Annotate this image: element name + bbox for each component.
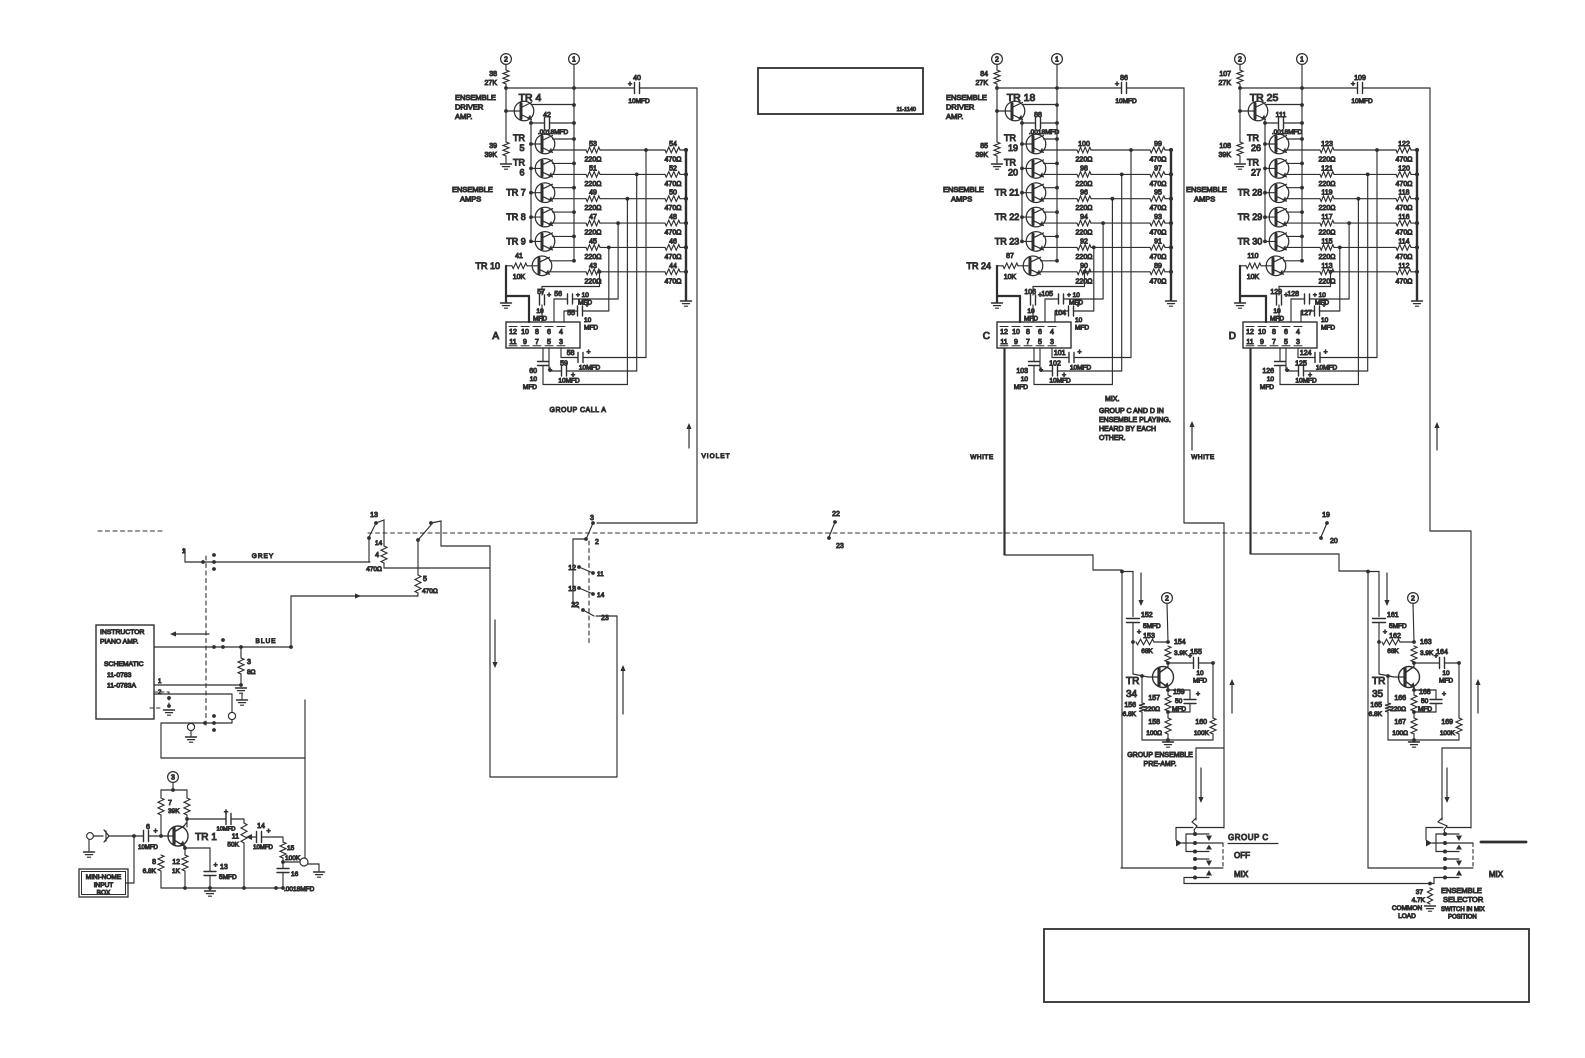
svg-text:105: 105 xyxy=(1041,291,1053,298)
svg-text:11: 11 xyxy=(1246,339,1253,346)
svg-text:109: 109 xyxy=(1354,75,1366,82)
svg-text:TR 22: TR 22 xyxy=(995,212,1020,222)
svg-text:106: 106 xyxy=(1024,289,1036,296)
svg-text:5: 5 xyxy=(547,339,551,346)
svg-text:2: 2 xyxy=(995,57,999,64)
svg-text:470Ω: 470Ω xyxy=(1396,157,1413,164)
svg-text:TR 7: TR 7 xyxy=(506,188,526,198)
svg-text:14: 14 xyxy=(597,592,605,599)
svg-text:89: 89 xyxy=(1154,263,1162,270)
svg-text:51: 51 xyxy=(589,165,597,172)
svg-text:INSTRUCTOR: INSTRUCTOR xyxy=(100,629,145,636)
svg-text:AMPS: AMPS xyxy=(951,195,972,204)
svg-text:220Ω: 220Ω xyxy=(1390,706,1406,713)
svg-text:26: 26 xyxy=(1251,143,1261,153)
svg-text:68K: 68K xyxy=(1141,648,1153,655)
svg-text:11-1140: 11-1140 xyxy=(897,107,916,113)
svg-text:11: 11 xyxy=(232,834,239,841)
svg-text:ENSEMBLE: ENSEMBLE xyxy=(946,93,987,102)
svg-text:HEARD BY EACH: HEARD BY EACH xyxy=(1099,426,1156,433)
svg-text:10: 10 xyxy=(1273,308,1281,315)
svg-text:TR: TR xyxy=(513,157,525,167)
svg-text:AMPS: AMPS xyxy=(1194,195,1215,204)
svg-text:MFD: MFD xyxy=(523,384,537,391)
svg-text:470Ω: 470Ω xyxy=(665,181,682,188)
svg-text:6.8K: 6.8K xyxy=(1369,711,1383,718)
svg-text:10: 10 xyxy=(1075,317,1083,324)
svg-text:86: 86 xyxy=(1120,75,1128,82)
svg-text:3.9K: 3.9K xyxy=(1420,650,1434,657)
svg-text:161: 161 xyxy=(1387,612,1399,619)
svg-text:10: 10 xyxy=(1258,329,1266,336)
svg-text:GROUP ENSEMBLE: GROUP ENSEMBLE xyxy=(1127,752,1193,759)
svg-text:TR 24: TR 24 xyxy=(966,261,991,271)
svg-text:D: D xyxy=(1229,331,1236,342)
svg-text:BLUE: BLUE xyxy=(256,638,277,645)
svg-text:5: 5 xyxy=(423,576,427,583)
svg-text:TR 28: TR 28 xyxy=(1238,188,1263,198)
svg-text:470Ω: 470Ω xyxy=(422,588,438,595)
svg-text:4: 4 xyxy=(375,552,379,559)
svg-text:AMP.: AMP. xyxy=(455,112,472,121)
svg-text:117: 117 xyxy=(1321,214,1332,221)
svg-text:TR: TR xyxy=(513,133,525,143)
svg-text:4: 4 xyxy=(559,329,563,336)
svg-text:220Ω: 220Ω xyxy=(1319,230,1336,237)
svg-text:470Ω: 470Ω xyxy=(1150,181,1167,188)
svg-text:POSITION: POSITION xyxy=(1448,915,1477,921)
svg-text:220Ω: 220Ω xyxy=(585,157,602,164)
svg-text:+: + xyxy=(214,862,218,869)
svg-text:2: 2 xyxy=(504,57,508,64)
svg-text:470Ω: 470Ω xyxy=(665,230,682,237)
svg-text:10: 10 xyxy=(584,317,592,324)
svg-text:WHITE: WHITE xyxy=(1191,454,1215,461)
svg-text:10: 10 xyxy=(530,376,538,383)
svg-text:97: 97 xyxy=(1154,165,1162,172)
svg-text:470Ω: 470Ω xyxy=(1150,254,1167,261)
svg-text:39: 39 xyxy=(489,143,497,150)
svg-text:3: 3 xyxy=(559,339,563,346)
svg-text:+ 10: + 10 xyxy=(1313,292,1326,299)
svg-text:470Ω: 470Ω xyxy=(1150,205,1167,212)
svg-text:128: 128 xyxy=(1287,291,1299,298)
svg-text:+: + xyxy=(1115,81,1119,88)
svg-text:VIOLET: VIOLET xyxy=(701,453,730,460)
svg-text:+: + xyxy=(1351,81,1355,88)
svg-text:121: 121 xyxy=(1321,165,1333,172)
svg-text:5MFD: 5MFD xyxy=(1143,623,1161,630)
svg-text:122: 122 xyxy=(1398,141,1410,148)
svg-text:42: 42 xyxy=(543,112,551,119)
svg-text:MFD: MFD xyxy=(1172,706,1186,713)
svg-text:39K: 39K xyxy=(168,808,180,815)
svg-text:GROUP C: GROUP C xyxy=(1228,833,1269,842)
svg-text:22: 22 xyxy=(832,511,840,518)
svg-text:11-0783A: 11-0783A xyxy=(107,683,136,690)
svg-text:+: + xyxy=(587,349,591,356)
svg-text:C: C xyxy=(983,331,990,342)
svg-text:19: 19 xyxy=(1008,143,1018,153)
svg-text:TR 18: TR 18 xyxy=(1007,92,1036,104)
svg-text:3: 3 xyxy=(171,775,175,782)
svg-text:27K: 27K xyxy=(485,80,498,87)
svg-text:DRIVER: DRIVER xyxy=(946,103,975,112)
svg-text:GROUP C AND D IN: GROUP C AND D IN xyxy=(1099,408,1164,415)
svg-text:MFD: MFD xyxy=(1075,325,1089,332)
svg-text:+: + xyxy=(224,809,228,816)
svg-text:WHITE: WHITE xyxy=(970,454,994,461)
svg-text:98: 98 xyxy=(1080,165,1088,172)
svg-text:100Ω: 100Ω xyxy=(1146,730,1162,737)
svg-text:37: 37 xyxy=(1416,889,1424,896)
svg-text:1: 1 xyxy=(1300,57,1304,64)
svg-text:MIX: MIX xyxy=(1489,870,1504,879)
svg-text:10: 10 xyxy=(1021,376,1029,383)
svg-text:12: 12 xyxy=(172,859,180,866)
svg-text:156: 156 xyxy=(1124,702,1136,709)
svg-text:2: 2 xyxy=(1411,596,1415,603)
svg-text:470Ω: 470Ω xyxy=(1396,205,1413,212)
svg-text:123: 123 xyxy=(1321,141,1333,148)
svg-text:470Ω: 470Ω xyxy=(665,205,682,212)
svg-text:SELECTOR: SELECTOR xyxy=(1443,895,1484,904)
svg-text:100K: 100K xyxy=(1194,730,1210,737)
svg-text:10: 10 xyxy=(1196,670,1204,677)
svg-text:12: 12 xyxy=(568,565,576,572)
svg-text:48: 48 xyxy=(669,214,677,221)
svg-text:162: 162 xyxy=(1389,633,1401,640)
svg-text:113: 113 xyxy=(1321,263,1332,270)
svg-text:+: + xyxy=(547,292,551,299)
svg-text:470Ω: 470Ω xyxy=(665,157,682,164)
svg-text:SWITCH IN MIX: SWITCH IN MIX xyxy=(1441,907,1485,913)
svg-text:101: 101 xyxy=(1054,350,1066,357)
svg-text:92: 92 xyxy=(1080,238,1088,245)
svg-text:166: 166 xyxy=(1394,695,1406,702)
svg-text:158: 158 xyxy=(1148,719,1160,726)
svg-text:58: 58 xyxy=(567,350,575,357)
svg-text:INPUT: INPUT xyxy=(94,882,114,889)
svg-text:53: 53 xyxy=(589,141,597,148)
svg-text:SCHEMATIC: SCHEMATIC xyxy=(104,661,144,668)
svg-text:220Ω: 220Ω xyxy=(1076,181,1093,188)
svg-text:6: 6 xyxy=(1284,329,1288,336)
svg-text:220Ω: 220Ω xyxy=(1144,706,1160,713)
svg-text:39K: 39K xyxy=(485,152,498,159)
svg-text:4.7K: 4.7K xyxy=(1412,897,1426,904)
svg-text:470Ω: 470Ω xyxy=(665,254,682,261)
svg-text:102: 102 xyxy=(1049,361,1061,368)
svg-text:114: 114 xyxy=(1398,238,1409,245)
svg-text:91: 91 xyxy=(1154,238,1162,245)
svg-text:11: 11 xyxy=(1000,339,1007,346)
svg-text:120: 120 xyxy=(1398,165,1410,172)
svg-text:10MFD: 10MFD xyxy=(1115,98,1137,105)
svg-text:12: 12 xyxy=(1000,329,1008,336)
svg-text:470Ω: 470Ω xyxy=(366,566,382,573)
svg-text:163: 163 xyxy=(1420,639,1432,646)
svg-text:8: 8 xyxy=(152,859,156,866)
svg-text:115: 115 xyxy=(1321,238,1332,245)
svg-text:57: 57 xyxy=(537,289,545,296)
svg-text:5: 5 xyxy=(519,143,524,153)
svg-text:220Ω: 220Ω xyxy=(1319,205,1336,212)
svg-text:6: 6 xyxy=(519,167,524,177)
svg-text:TR 4: TR 4 xyxy=(519,92,542,104)
svg-text:5: 5 xyxy=(1038,339,1042,346)
svg-text:6: 6 xyxy=(146,824,150,831)
svg-text:27K: 27K xyxy=(1219,80,1232,87)
svg-text:MFD: MFD xyxy=(1439,678,1453,685)
svg-text:MIX.: MIX. xyxy=(1105,396,1119,403)
svg-text:470Ω: 470Ω xyxy=(1150,278,1167,285)
svg-text:+: + xyxy=(1039,367,1043,374)
svg-text:MIX: MIX xyxy=(1234,870,1249,879)
svg-text:7: 7 xyxy=(1026,339,1030,346)
svg-text:47: 47 xyxy=(589,214,597,221)
svg-text:2: 2 xyxy=(1238,57,1242,64)
svg-text:LOAD: LOAD xyxy=(1398,913,1416,920)
svg-text:PIANO AMP.: PIANO AMP. xyxy=(100,639,139,646)
svg-text:AMPS: AMPS xyxy=(460,195,481,204)
svg-text:TR 21: TR 21 xyxy=(995,188,1020,198)
svg-text:152: 152 xyxy=(1141,612,1153,619)
svg-text:TR 29: TR 29 xyxy=(1238,212,1263,222)
svg-text:470Ω: 470Ω xyxy=(1396,181,1413,188)
svg-text:10MFD: 10MFD xyxy=(1049,378,1071,385)
svg-text:10: 10 xyxy=(1321,317,1329,324)
svg-text:3: 3 xyxy=(1296,339,1300,346)
svg-text:15: 15 xyxy=(287,845,295,852)
svg-text:14: 14 xyxy=(375,540,383,547)
svg-text:220Ω: 220Ω xyxy=(585,205,602,212)
svg-text:+: + xyxy=(1324,349,1328,356)
svg-text:2: 2 xyxy=(1165,596,1169,603)
svg-text:MFD: MFD xyxy=(584,325,598,332)
svg-text:100K: 100K xyxy=(285,855,301,862)
svg-text:10: 10 xyxy=(521,329,529,336)
svg-text:10: 10 xyxy=(1267,376,1275,383)
svg-text:112: 112 xyxy=(1398,263,1409,270)
svg-text:85: 85 xyxy=(980,143,988,150)
svg-text:10MFD: 10MFD xyxy=(253,845,273,851)
svg-text:19: 19 xyxy=(1322,512,1330,519)
svg-text:470Ω: 470Ω xyxy=(1396,254,1413,261)
svg-text:52: 52 xyxy=(669,165,677,172)
svg-text:44: 44 xyxy=(669,263,677,270)
svg-text:6.8K: 6.8K xyxy=(1123,711,1137,718)
svg-text:10MFD: 10MFD xyxy=(628,98,650,105)
svg-text:10: 10 xyxy=(1012,329,1020,336)
svg-text:1K: 1K xyxy=(172,868,181,875)
svg-text:35: 35 xyxy=(1372,689,1384,700)
svg-text:7: 7 xyxy=(168,800,172,807)
svg-text:+: + xyxy=(154,828,158,835)
svg-text:103: 103 xyxy=(1016,368,1028,375)
svg-text:50: 50 xyxy=(669,190,677,197)
svg-text:PRE-AMP.: PRE-AMP. xyxy=(1144,761,1177,768)
svg-text:119: 119 xyxy=(1321,190,1332,197)
svg-text:7: 7 xyxy=(1272,339,1276,346)
svg-text:6: 6 xyxy=(1038,329,1042,336)
svg-text:14: 14 xyxy=(257,823,265,830)
svg-text:10: 10 xyxy=(1027,308,1035,315)
svg-text:TR: TR xyxy=(1372,676,1385,687)
svg-text:23: 23 xyxy=(836,543,844,550)
svg-text:TR 23: TR 23 xyxy=(995,236,1020,246)
svg-text:84: 84 xyxy=(980,71,988,78)
svg-text:10K: 10K xyxy=(513,274,526,281)
svg-text:10MFD: 10MFD xyxy=(1351,98,1373,105)
svg-text:TR: TR xyxy=(1004,157,1016,167)
svg-text:116: 116 xyxy=(1398,214,1409,221)
svg-text:5: 5 xyxy=(1284,339,1288,346)
svg-text:220Ω: 220Ω xyxy=(1076,157,1093,164)
svg-text:95: 95 xyxy=(1154,190,1162,197)
svg-text:+: + xyxy=(585,302,589,309)
svg-text:220Ω: 220Ω xyxy=(1076,254,1093,261)
svg-text:12: 12 xyxy=(509,329,517,336)
svg-text:+: + xyxy=(1285,367,1289,374)
svg-text:154: 154 xyxy=(1174,639,1186,646)
svg-text:+: + xyxy=(628,81,632,88)
svg-text:470Ω: 470Ω xyxy=(1150,230,1167,237)
svg-text:10MFD: 10MFD xyxy=(216,827,235,833)
svg-text:TR 8: TR 8 xyxy=(506,212,526,222)
svg-text:10K: 10K xyxy=(1247,274,1260,281)
svg-text:68K: 68K xyxy=(1387,648,1399,655)
svg-text:8: 8 xyxy=(535,329,539,336)
svg-text:ENSEMBLE: ENSEMBLE xyxy=(455,93,496,102)
svg-text:TR: TR xyxy=(1247,157,1259,167)
svg-text:100: 100 xyxy=(1078,141,1090,148)
svg-text:3: 3 xyxy=(1050,339,1054,346)
svg-text:54: 54 xyxy=(669,141,677,148)
svg-text:118: 118 xyxy=(1398,190,1409,197)
svg-text:3: 3 xyxy=(590,515,594,522)
svg-text:153: 153 xyxy=(1143,633,1155,640)
svg-text:3: 3 xyxy=(247,659,251,666)
svg-text:220Ω: 220Ω xyxy=(1076,230,1093,237)
svg-text:40: 40 xyxy=(633,75,641,82)
svg-text:+: + xyxy=(1078,349,1082,356)
svg-text:MFD: MFD xyxy=(1321,325,1335,332)
svg-text:56: 56 xyxy=(554,291,562,298)
svg-text:11: 11 xyxy=(597,571,604,578)
svg-text:TR 9: TR 9 xyxy=(506,236,526,246)
svg-text:124: 124 xyxy=(1300,350,1312,357)
svg-text:220Ω: 220Ω xyxy=(585,278,602,285)
svg-text:93: 93 xyxy=(1154,214,1162,221)
svg-text:1: 1 xyxy=(572,57,576,64)
svg-text:220Ω: 220Ω xyxy=(1319,181,1336,188)
svg-text:167: 167 xyxy=(1394,719,1406,726)
svg-text:2: 2 xyxy=(595,539,599,546)
svg-text:5MFD: 5MFD xyxy=(1389,623,1407,630)
svg-text:ENSEMBLE: ENSEMBLE xyxy=(1441,886,1482,895)
svg-text:MINI-NOME: MINI-NOME xyxy=(86,874,122,881)
svg-text:169: 169 xyxy=(1441,719,1453,726)
svg-text:11-0783: 11-0783 xyxy=(107,672,132,679)
svg-text:TR 25: TR 25 xyxy=(1250,92,1279,104)
svg-text:20: 20 xyxy=(1330,538,1338,545)
svg-text:43: 43 xyxy=(589,263,597,270)
svg-text:10MFD: 10MFD xyxy=(558,378,580,385)
svg-text:9: 9 xyxy=(523,339,527,346)
svg-text:13: 13 xyxy=(220,864,228,871)
svg-text:+: + xyxy=(1188,653,1192,660)
svg-text:96: 96 xyxy=(1080,190,1088,197)
svg-text:+: + xyxy=(1196,691,1200,698)
svg-text:50: 50 xyxy=(1421,698,1429,705)
svg-text:129: 129 xyxy=(1270,289,1282,296)
svg-text:27K: 27K xyxy=(976,80,989,87)
svg-text:107: 107 xyxy=(1219,71,1231,78)
svg-text:157: 157 xyxy=(1148,695,1160,702)
svg-text:13: 13 xyxy=(568,586,576,593)
svg-text:16: 16 xyxy=(291,871,299,878)
svg-text:+ 10: + 10 xyxy=(1067,292,1080,299)
svg-text:160: 160 xyxy=(1195,719,1207,726)
svg-text:90: 90 xyxy=(1080,263,1088,270)
svg-text:BOX: BOX xyxy=(97,890,111,897)
svg-text:99: 99 xyxy=(1154,141,1162,148)
svg-text:A: A xyxy=(492,331,499,342)
svg-text:10: 10 xyxy=(1442,670,1450,677)
svg-text:50: 50 xyxy=(1175,698,1183,705)
svg-text:OFF: OFF xyxy=(1234,851,1250,860)
svg-text:59: 59 xyxy=(560,361,568,368)
svg-text:100Ω: 100Ω xyxy=(1392,730,1408,737)
svg-text:MFD: MFD xyxy=(1260,384,1274,391)
svg-text:7: 7 xyxy=(535,339,539,346)
svg-text:9: 9 xyxy=(1014,339,1018,346)
svg-text:470Ω: 470Ω xyxy=(1396,278,1413,285)
svg-text:41: 41 xyxy=(515,253,523,260)
svg-text:10: 10 xyxy=(536,308,544,315)
svg-text:50K: 50K xyxy=(227,842,239,849)
svg-text:38: 38 xyxy=(489,71,497,78)
svg-text:168: 168 xyxy=(1419,689,1431,696)
svg-text:10K: 10K xyxy=(1004,274,1017,281)
svg-text:94: 94 xyxy=(1080,214,1088,221)
svg-text:AMP.: AMP. xyxy=(946,112,963,121)
svg-text:108: 108 xyxy=(1219,143,1231,150)
svg-text:6: 6 xyxy=(547,329,551,336)
svg-text:GROUP CALL A: GROUP CALL A xyxy=(550,407,607,414)
svg-text:OTHER.: OTHER. xyxy=(1099,435,1126,442)
svg-text:470Ω: 470Ω xyxy=(1396,230,1413,237)
svg-text:ENSEMBLE PLAYING.: ENSEMBLE PLAYING. xyxy=(1099,417,1171,424)
svg-text:+: + xyxy=(267,828,271,835)
svg-text:470Ω: 470Ω xyxy=(1150,157,1167,164)
svg-text:4: 4 xyxy=(1050,329,1054,336)
svg-text:TR 10: TR 10 xyxy=(475,261,500,271)
svg-text:10MFD: 10MFD xyxy=(138,845,158,851)
svg-text:46: 46 xyxy=(669,238,677,245)
svg-text:8: 8 xyxy=(1272,329,1276,336)
svg-text:ENSEMBLE: ENSEMBLE xyxy=(943,185,984,194)
svg-text:49: 49 xyxy=(589,190,597,197)
svg-text:9: 9 xyxy=(1260,339,1264,346)
svg-text:5MFD: 5MFD xyxy=(219,874,237,881)
svg-text:13: 13 xyxy=(370,512,378,519)
svg-text:220Ω: 220Ω xyxy=(1319,157,1336,164)
svg-text:45: 45 xyxy=(589,238,597,245)
svg-text:6.8K: 6.8K xyxy=(143,868,157,875)
svg-text:87: 87 xyxy=(1006,253,1014,260)
